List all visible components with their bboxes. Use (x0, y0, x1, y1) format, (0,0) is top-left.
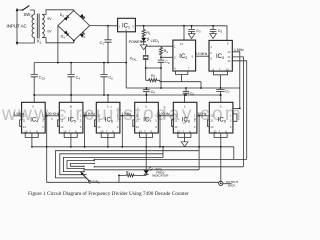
svg-text:10: 10 (24, 129, 28, 133)
bus line right V233.8 (94, 147, 246, 160)
svg-text:C5: C5 (218, 29, 223, 34)
svg-text:10: 10 (139, 129, 143, 133)
node C1 top junction (107, 25, 109, 27)
svg-text:D2: D2 (60, 13, 65, 18)
capacitor C7 (216, 88, 224, 95)
svg-text:9V: 9V (47, 17, 52, 21)
LED2 (144, 170, 149, 174)
capacitor C9 (183, 88, 190, 95)
bus return line lower (84, 169, 199, 171)
capacitor C5 decoupling (210, 26, 217, 34)
diode D4 (64, 31, 69, 36)
svg-text:C4: C4 (76, 76, 81, 81)
bus nest rect 2 (60, 154, 163, 175)
tap wire 100 Hz down (159, 116, 161, 147)
svg-text:R2: R2 (164, 49, 169, 54)
svg-text:14: 14 (180, 42, 184, 46)
svg-text:10: 10 (63, 129, 67, 133)
wire switch to transformer (30, 10, 35, 15)
IC9 decade counter (207, 94, 233, 137)
input AC top arrow (16, 8, 19, 12)
svg-text:14: 14 (227, 59, 231, 63)
wire IC6 to IC7 (120, 115, 135, 117)
bus nest rect 3 (63, 147, 163, 172)
wire input bottom to transformer (17, 38, 34, 44)
wire IC3 pin12 to right column (232, 52, 240, 109)
IC2 ground bracket (176, 71, 188, 82)
svg-text:C3: C3 (196, 29, 201, 34)
wire branch up to R4 (119, 175, 127, 182)
ground collect line y146.8 (32, 146, 234, 148)
IC3 decade counter box (209, 40, 232, 71)
wire R3 right to collector line (159, 80, 161, 81)
svg-text:SW1: SW1 (24, 12, 33, 18)
transformer X1 secondary winding (42, 15, 44, 38)
wire IC3 pin14 to right column (232, 61, 246, 160)
wire IC4 to IC5 (45, 115, 59, 117)
node bridge bottom junction (73, 40, 75, 42)
svg-text:C8: C8 (151, 90, 156, 95)
diode D2 (64, 15, 69, 20)
capacitor C8 (143, 88, 150, 95)
IC6 decade counter (94, 94, 120, 137)
svg-text:XTAL: XTAL (130, 57, 138, 62)
wire IC8 bracket down to ground (184, 138, 186, 142)
diode D3 (80, 14, 85, 19)
node C1 bottom junction (107, 62, 109, 64)
svg-text:10: 10 (177, 129, 181, 133)
svg-text:10: 10 (213, 129, 217, 133)
svg-text:C9: C9 (190, 92, 195, 97)
ground symbol under IC8 (181, 142, 188, 147)
svg-text:0V: 0V (47, 29, 52, 33)
wire IC5 to IC6 (83, 115, 97, 117)
svg-text:C10: C10 (39, 76, 45, 81)
svg-text:X1: X1 (37, 39, 42, 45)
IC9 right feedback loop (233, 114, 237, 121)
+5V rail middle y96 (34, 94, 221, 96)
IC1 ground pin wire down (125, 32, 127, 88)
IC8 decade counter (171, 94, 197, 137)
wire 10 MHz IC2 to IC3 (196, 55, 209, 57)
wire IC5 bracket down (70, 138, 72, 147)
svg-text:C1: C1 (100, 41, 105, 46)
svg-text:C7: C7 (225, 90, 230, 95)
svg-text:LED1: LED1 (151, 39, 160, 44)
svg-text:R1: R1 (146, 31, 151, 36)
diode D1 (80, 32, 85, 37)
caption Figure 1 (28, 191, 189, 197)
IC3 ground bracket (214, 71, 228, 88)
wire switch pole to output (91, 181, 219, 183)
tap wire 1 KHz down (121, 116, 123, 147)
ground rail left y62.6 (34, 62, 126, 64)
tap wire 100 KHz down (47, 116, 89, 183)
bus nest rect 1 (55, 151, 199, 178)
resistor R1 (142, 26, 145, 38)
svg-text:12: 12 (227, 50, 231, 54)
junctions on collect line (31, 146, 222, 148)
wire bridge negative down to ground rail (57, 26, 59, 63)
transformer X1 primary winding (32, 15, 34, 38)
watermark www.circuitstoday.com (2, 104, 249, 126)
LED1 (141, 38, 149, 45)
svg-text:10: 10 (100, 129, 104, 133)
wire IC3 pin11 to right column (232, 57, 243, 167)
wire IC7 to IC8 (158, 115, 173, 117)
crystal X TAL (143, 46, 161, 80)
svg-text:C2: C2 (165, 60, 170, 65)
wire IC8 to IC9 (197, 115, 209, 117)
wire secondary top to bridge (42, 10, 74, 15)
wire IC9 pin1 to right column (233, 107, 240, 109)
bridge rectifier diamond (58, 11, 90, 41)
switch SW2 blade (82, 174, 90, 182)
svg-text:10: 10 (225, 68, 229, 72)
capacitor C3 decoupling (188, 26, 195, 34)
ground symbol under C3 (188, 34, 195, 39)
wire IC2 pin14 riser (183, 26, 185, 40)
svg-text:D3: D3 (81, 15, 86, 20)
wire IC9 bracket down to output jack (220, 138, 222, 182)
wire bridge positive to IC1 (90, 25, 118, 27)
svg-text:R4: R4 (126, 170, 130, 175)
wire IC7 bracket down to LED2 (145, 138, 147, 171)
IC5 decade counter (57, 94, 83, 137)
IC1 voltage regulator box (118, 18, 136, 32)
wire jack right stub (223, 183, 232, 185)
tap wire 10 KHz down (84, 116, 86, 147)
wire 1 MHz input to IC4 (14, 115, 22, 117)
wire secondary bottom to bridge (42, 38, 74, 43)
IC4 decade counter (20, 94, 46, 137)
resistor R3 (146, 79, 160, 82)
resistor R4 (127, 174, 147, 177)
svg-text:JACK: JACK (227, 184, 236, 188)
capacitor C2 (158, 57, 165, 88)
wire input AC left terminal line (16, 12, 18, 42)
+5V rail from IC1 (135, 26, 227, 41)
bus nest rect 5 (71, 163, 95, 166)
svg-text:10 MHz: 10 MHz (196, 52, 208, 56)
svg-text:C6: C6 (108, 76, 113, 81)
transformer core (37, 14, 39, 39)
bus nest rect 4 (67, 161, 94, 169)
switch SW1 blade (22, 6, 29, 11)
capacitor C6 (100, 63, 107, 95)
svg-text:INDICATOR: INDICATOR (152, 174, 169, 178)
svg-text:POWER: POWER (129, 40, 143, 44)
collector line under IC2 (160, 82, 201, 88)
switch contacts (83, 159, 95, 173)
ground symbol below LED1 (140, 45, 147, 50)
IC7 decade counter (133, 94, 159, 137)
ground line right y88 (126, 87, 240, 89)
wire IC4 bracket down (31, 138, 33, 147)
IC2 oscillator box (173, 40, 196, 71)
tap wire 10 Hz down (198, 116, 200, 170)
output jack (219, 181, 223, 185)
wire IC2 pin2 (161, 56, 173, 58)
input AC bottom arrow (16, 42, 19, 46)
ground symbol under C5 (210, 34, 217, 39)
svg-text:D1: D1 (81, 34, 86, 39)
capacitor C4 (68, 63, 75, 95)
wire IC2 pin1 (146, 45, 173, 47)
svg-text:D4: D4 (61, 35, 66, 40)
capacitor C1 (104, 26, 111, 63)
bus return line upper (94, 166, 243, 168)
resistor R2 (159, 46, 162, 57)
svg-text:INPUT AC: INPUT AC (7, 23, 27, 28)
capacitor C10 (31, 63, 38, 95)
wire input top to switch (17, 9, 23, 11)
wire IC6 bracket down (107, 138, 109, 147)
